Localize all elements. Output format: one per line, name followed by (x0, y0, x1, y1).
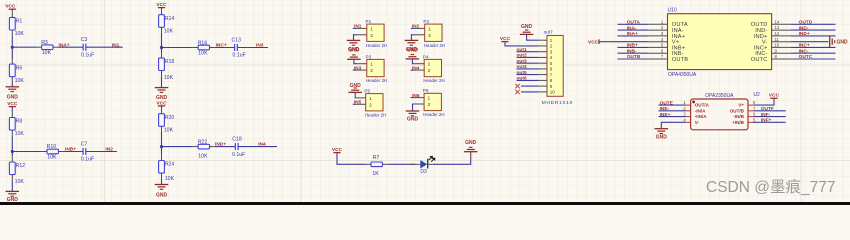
svg-text:out2: out2 (517, 53, 527, 59)
svg-text:INA+: INA+ (627, 31, 638, 37)
svg-text:0.1uF: 0.1uF (81, 52, 94, 58)
wire out4 to MHDR pin6 (517, 68, 539, 70)
svg-text:OUTF: OUTF (761, 106, 774, 112)
wire D3 to ground (433, 157, 471, 165)
wire R18 to ground (161, 76, 163, 87)
power port VCC (col2 bottom) (156, 100, 167, 106)
svg-text:GND: GND (348, 48, 360, 54)
wire INB+ to U10 pin5 (618, 46, 649, 48)
svg-text:VCC: VCC (500, 36, 511, 42)
svg-text:10K: 10K (47, 155, 57, 161)
wire R8 to node B (11, 136, 13, 152)
svg-text:GND: GND (156, 95, 168, 101)
svg-text:IN1: IN1 (354, 24, 362, 30)
svg-text:INF-: INF- (761, 112, 771, 118)
svg-text:GND: GND (407, 48, 419, 54)
svg-text:13: 13 (775, 25, 780, 30)
svg-text:R10: R10 (47, 144, 57, 150)
capacitor C13 (232, 37, 246, 58)
svg-text:Header 2H: Header 2H (423, 78, 444, 83)
wire VCC to U10 pin4 (599, 41, 648, 43)
wire VCC to R7 (337, 153, 366, 165)
resistor R16 (193, 40, 215, 56)
svg-text:GND: GND (407, 116, 419, 122)
svg-text:10K: 10K (15, 179, 25, 185)
wire node D to R24 (161, 147, 163, 155)
svg-text:out3: out3 (517, 58, 527, 64)
wire U10 pin13 to IND- (791, 29, 836, 31)
wire out5 to MHDR pin7 (517, 74, 539, 76)
node C junction (160, 46, 163, 49)
svg-text:R6: R6 (16, 65, 23, 71)
wire IN2 to P2 pin1 (411, 27, 416, 29)
svg-text:IN4: IN4 (258, 142, 266, 148)
power port VCC (LED row) (332, 147, 343, 153)
bottom black bar (0, 202, 850, 205)
connector P2 (415, 19, 445, 48)
ground (col1 bottom) (6, 191, 19, 203)
wire MHDR pin9 (521, 85, 538, 87)
svg-text:VCC: VCC (588, 40, 599, 46)
ground (P6) (406, 111, 420, 122)
svg-text:OUTE: OUTE (660, 100, 674, 106)
svg-text:Header 2H: Header 2H (366, 78, 387, 83)
svg-text:GND: GND (350, 83, 362, 89)
ground (U2) (655, 129, 669, 141)
node A junction (11, 46, 14, 49)
wire U10 pin8 to OUTC (791, 58, 836, 60)
svg-text:out1: out1 (517, 47, 527, 53)
svg-text:OUT/B: OUT/B (730, 109, 745, 114)
resistor R20 (159, 108, 175, 133)
svg-text:INC+: INC+ (799, 43, 810, 49)
wire U10 pin14 to OUTD (791, 23, 836, 25)
svg-text:R20: R20 (165, 115, 175, 121)
wire OUTA to U10 pin1 (618, 23, 649, 25)
svg-text:INA-: INA- (627, 25, 637, 31)
wire U10 pin9 to INC- (791, 52, 836, 54)
svg-text:Header 2H: Header 2H (366, 43, 387, 48)
svg-text:R7: R7 (373, 155, 380, 161)
svg-text:0.1uF: 0.1uF (232, 152, 245, 158)
svg-text:14: 14 (775, 19, 780, 24)
op-amp U2 (683, 92, 760, 130)
svg-text:Header 2H: Header 2H (423, 112, 444, 117)
svg-text:IN6: IN6 (412, 93, 420, 99)
svg-text:R18: R18 (165, 59, 175, 65)
wire out2 to MHDR pin4 (517, 56, 539, 58)
svg-text:0.1uF: 0.1uF (81, 157, 94, 163)
wire IN1 to P1 pin1 (353, 27, 358, 29)
connector P3 (357, 54, 387, 83)
ground (col2 top) (155, 88, 169, 101)
wire C7 to IN2 (86, 151, 117, 153)
wire node B to R10 (12, 151, 41, 153)
svg-text:U10: U10 (668, 7, 677, 13)
wire R22 to C18 (215, 146, 236, 148)
resistor R8 (9, 112, 24, 137)
ground (P5, inverted) (348, 83, 362, 92)
ground (LED, inverted) (464, 140, 478, 157)
wire R10 to C7 (64, 151, 83, 153)
svg-text:D3: D3 (420, 169, 427, 175)
resistor R12 (9, 156, 25, 185)
svg-text:OPA4350UA: OPA4350UA (668, 72, 697, 78)
wire node C to R16 (162, 47, 193, 49)
resistor R10 (42, 144, 64, 160)
wire R7 to D3 (388, 163, 415, 165)
ground (P2) (405, 40, 419, 52)
svg-text:R3: R3 (41, 40, 48, 46)
svg-text:10K: 10K (198, 51, 208, 57)
svg-text:10: 10 (550, 90, 555, 95)
wire C3 to IN1 (86, 46, 123, 48)
LED D3 (411, 156, 435, 175)
power port VCC (MHDR pin2) (500, 36, 511, 42)
svg-text:INB+: INB+ (627, 43, 638, 49)
connector P6 (415, 88, 445, 117)
wire out3 to MHDR pin5 (517, 62, 539, 64)
svg-text:10K: 10K (15, 31, 25, 37)
svg-text:OUTC: OUTC (799, 54, 813, 60)
wire P6 pin2 to ground (413, 104, 415, 111)
svg-text:VCC: VCC (5, 3, 16, 9)
wire C13 to IN3 (237, 47, 268, 49)
svg-text:10K: 10K (164, 127, 174, 133)
connector P1 (357, 19, 387, 48)
svg-text:GND: GND (837, 40, 849, 46)
svg-text:R14: R14 (165, 16, 175, 22)
svg-text:IN2: IN2 (412, 24, 420, 30)
pin stubs (538, 40, 547, 92)
wire node A to R6 (11, 47, 13, 58)
resistor R1 (9, 12, 24, 37)
wire OUTB to U10 pin7 (618, 58, 649, 60)
svg-text:V-: V- (695, 120, 700, 125)
svg-text:INC+: INC+ (216, 43, 227, 49)
svg-text:C13: C13 (232, 37, 242, 43)
node B junction (11, 150, 14, 153)
wire R6 to ground (11, 82, 13, 86)
wire INA- to U10 pin2 (618, 29, 649, 31)
connector P4 (415, 54, 445, 83)
svg-text:VCC: VCC (332, 147, 343, 153)
svg-text:GND: GND (156, 192, 168, 198)
svg-text:10K: 10K (42, 50, 52, 56)
svg-text:C7: C7 (81, 141, 88, 147)
svg-text:OUTA: OUTA (627, 20, 641, 26)
svg-text:GND: GND (465, 140, 477, 146)
svg-text:12: 12 (775, 31, 780, 36)
wire node C to R18 (161, 48, 163, 53)
wire U10 pin10 to INC+ (791, 46, 836, 48)
power port VCC (col1 top) (5, 3, 16, 9)
ground (col2 bottom) (155, 185, 169, 199)
power port VCC (col1 bottom) (7, 101, 18, 107)
wire U2 pin5 to INF+ (753, 121, 786, 123)
wire U10 pin12 to IND+ (791, 35, 836, 37)
wire U2 pin6 to INF- (753, 116, 786, 118)
svg-text:R24: R24 (165, 162, 175, 168)
svg-text:VCC: VCC (769, 93, 780, 99)
svg-text:10K: 10K (15, 78, 25, 84)
wire R1 to node A (11, 36, 13, 48)
wire P1 pin2 to ground (354, 35, 358, 40)
svg-text:10K: 10K (165, 176, 175, 182)
wire P3 ground to pin1 (354, 59, 357, 63)
svg-text:IND+: IND+ (799, 31, 810, 37)
resistor R18 (159, 52, 175, 81)
svg-text:out6: out6 (517, 76, 527, 82)
svg-text:OUTD: OUTD (799, 20, 813, 26)
wire MHDR pin1 to ground (527, 34, 538, 40)
svg-text:OUTB: OUTB (672, 57, 688, 63)
wire IN6 to P6 pin1 (411, 97, 415, 99)
svg-text:INE+: INE+ (660, 112, 671, 118)
wire INA+ to U10 pin3 (618, 35, 649, 37)
svg-text:R16: R16 (198, 40, 208, 46)
svg-text:R1: R1 (16, 19, 23, 25)
svg-text:OUT/A: OUT/A (695, 103, 710, 108)
svg-text:P2: P2 (423, 19, 429, 24)
node D junction (160, 145, 163, 148)
wire node A to R3 (12, 46, 36, 48)
resistor R24 (159, 155, 175, 182)
svg-text:INF+: INF+ (761, 118, 772, 124)
wire U10 pin11 to ground (791, 41, 828, 43)
wire VCC to MHDR pin2 (505, 42, 538, 46)
ground (P1) (347, 40, 361, 52)
ground (P4, inverted) (406, 48, 420, 59)
wire P2 pin2 to ground (411, 35, 415, 40)
wire P4 ground to pin1 (412, 59, 414, 64)
wire VCC to R14 (161, 8, 163, 9)
svg-text:IN3: IN3 (256, 43, 264, 49)
svg-text:P5: P5 (364, 89, 370, 94)
resistor R14 (159, 9, 175, 34)
wire OUTE to U2 pin1 (659, 104, 686, 106)
wire C18 to IN4 (238, 146, 277, 148)
svg-text:R8: R8 (16, 119, 23, 125)
svg-text:GND: GND (521, 24, 533, 30)
svg-text:GND: GND (7, 95, 19, 101)
svg-text:INB-: INB- (627, 48, 637, 54)
power port VCC (col2 top) (156, 2, 167, 8)
wire MHDR pin10 (521, 91, 538, 93)
svg-text:U2: U2 (753, 92, 760, 98)
wire R12 to ground (11, 180, 13, 191)
wire INB- to U10 pin6 (618, 52, 649, 54)
wire U2 pin8 to VCC (753, 98, 774, 105)
svg-text:11: 11 (775, 37, 780, 42)
svg-text:+IN/B: +IN/B (732, 120, 745, 125)
op-amp U10 (648, 7, 791, 78)
svg-text:C3: C3 (81, 37, 88, 43)
svg-text:R22: R22 (198, 139, 208, 145)
wire R16 to C13 (215, 47, 235, 49)
wire node B to R12 (11, 152, 13, 157)
wire IN3 to P3 pin2 (353, 69, 358, 71)
svg-text:P1: P1 (366, 19, 372, 24)
wire out1 to MHDR pin3 (517, 51, 539, 53)
wire U2 pin7 to OUTF (753, 110, 786, 112)
power port VCC (U10 pin4) (588, 39, 599, 45)
svg-text:INA+: INA+ (59, 42, 70, 48)
svg-text:V+: V+ (738, 103, 744, 108)
ground (col1 top) (6, 87, 19, 101)
svg-text:IND+: IND+ (215, 142, 226, 148)
wire VCC to R20 (161, 106, 163, 108)
capacitor C18 (232, 136, 245, 157)
no-ERC marker pin9 (515, 84, 519, 88)
svg-text:Header 2H: Header 2H (424, 43, 445, 48)
wire INE- to U2 pin2 (659, 110, 686, 112)
wire R20 to node D (161, 132, 163, 147)
svg-text:INC-: INC- (799, 48, 809, 54)
svg-text:10K: 10K (164, 75, 174, 81)
svg-text:OPA2350UA: OPA2350UA (705, 93, 734, 99)
wire IN5 to P5 pin2 (353, 103, 356, 105)
svg-text:10K: 10K (15, 131, 25, 137)
wire INE+ to U2 pin3 (659, 116, 686, 118)
svg-text:out4: out4 (517, 64, 527, 70)
svg-text:VCC: VCC (156, 2, 167, 8)
svg-text:VCC: VCC (156, 100, 167, 106)
svg-text:P6: P6 (423, 88, 429, 93)
ground (U10 pin11, sideways) (830, 36, 848, 47)
svg-text:+IN/A: +IN/A (695, 114, 708, 119)
svg-text:IN2: IN2 (105, 147, 113, 153)
connector out7 MHDR1X10 (538, 30, 573, 107)
svg-text:1K: 1K (372, 171, 379, 177)
wire R14 to node C (161, 33, 163, 48)
svg-text:-IN/B: -IN/B (733, 114, 744, 119)
connector P5 (356, 89, 386, 118)
wire P5 ground to pin1 (355, 92, 356, 98)
svg-text:CSDN @墨痕_777: CSDN @墨痕_777 (706, 178, 835, 196)
no-ERC marker pin10 (515, 90, 519, 94)
svg-text:IND-: IND- (799, 25, 809, 31)
svg-text:P3: P3 (366, 54, 372, 59)
wire R24 to ground (161, 179, 163, 185)
svg-text:Header 2H: Header 2H (365, 112, 386, 117)
resistor R6 (9, 58, 24, 83)
resistor R3 (36, 40, 58, 56)
svg-text:P4: P4 (423, 54, 429, 59)
wire node D to R22 (162, 146, 193, 148)
wire IN4 to P4 pin2 (411, 69, 415, 71)
svg-text:0.1uF: 0.1uF (233, 53, 246, 59)
svg-text:C18: C18 (232, 136, 242, 142)
svg-text:out7: out7 (544, 30, 553, 35)
svg-text:R12: R12 (16, 163, 26, 169)
wire VCC to R1 (11, 9, 13, 11)
svg-text:GND: GND (656, 135, 668, 141)
svg-text:OUTB: OUTB (627, 54, 641, 60)
svg-text:10: 10 (775, 43, 780, 48)
ground (MHDR pin1, inverted) (520, 24, 534, 34)
power port VCC (U2) (769, 93, 780, 99)
svg-text:out5: out5 (517, 70, 527, 76)
svg-text:10K: 10K (164, 28, 174, 34)
svg-text:VCC: VCC (7, 101, 18, 107)
capacitor C7 (81, 141, 94, 162)
wire VCC to R8 (11, 107, 13, 112)
wire R3 to C3 (58, 46, 83, 48)
resistor R22 (193, 139, 215, 159)
wire U2 pin4 to ground (661, 122, 685, 128)
svg-text:MHDR1X10: MHDR1X10 (542, 100, 573, 106)
svg-text:10K: 10K (198, 154, 208, 160)
svg-text:-IN/A: -IN/A (695, 109, 706, 114)
wire out6 to MHDR pin8 (517, 79, 539, 81)
capacitor C3 (81, 37, 94, 58)
svg-text:INE-: INE- (660, 106, 670, 112)
svg-text:OUTC: OUTC (751, 57, 768, 63)
svg-text:IN1: IN1 (112, 42, 120, 48)
svg-text:INB+: INB+ (65, 147, 76, 153)
resistor R7 (366, 155, 388, 177)
ground (P3, inverted) (347, 48, 361, 60)
